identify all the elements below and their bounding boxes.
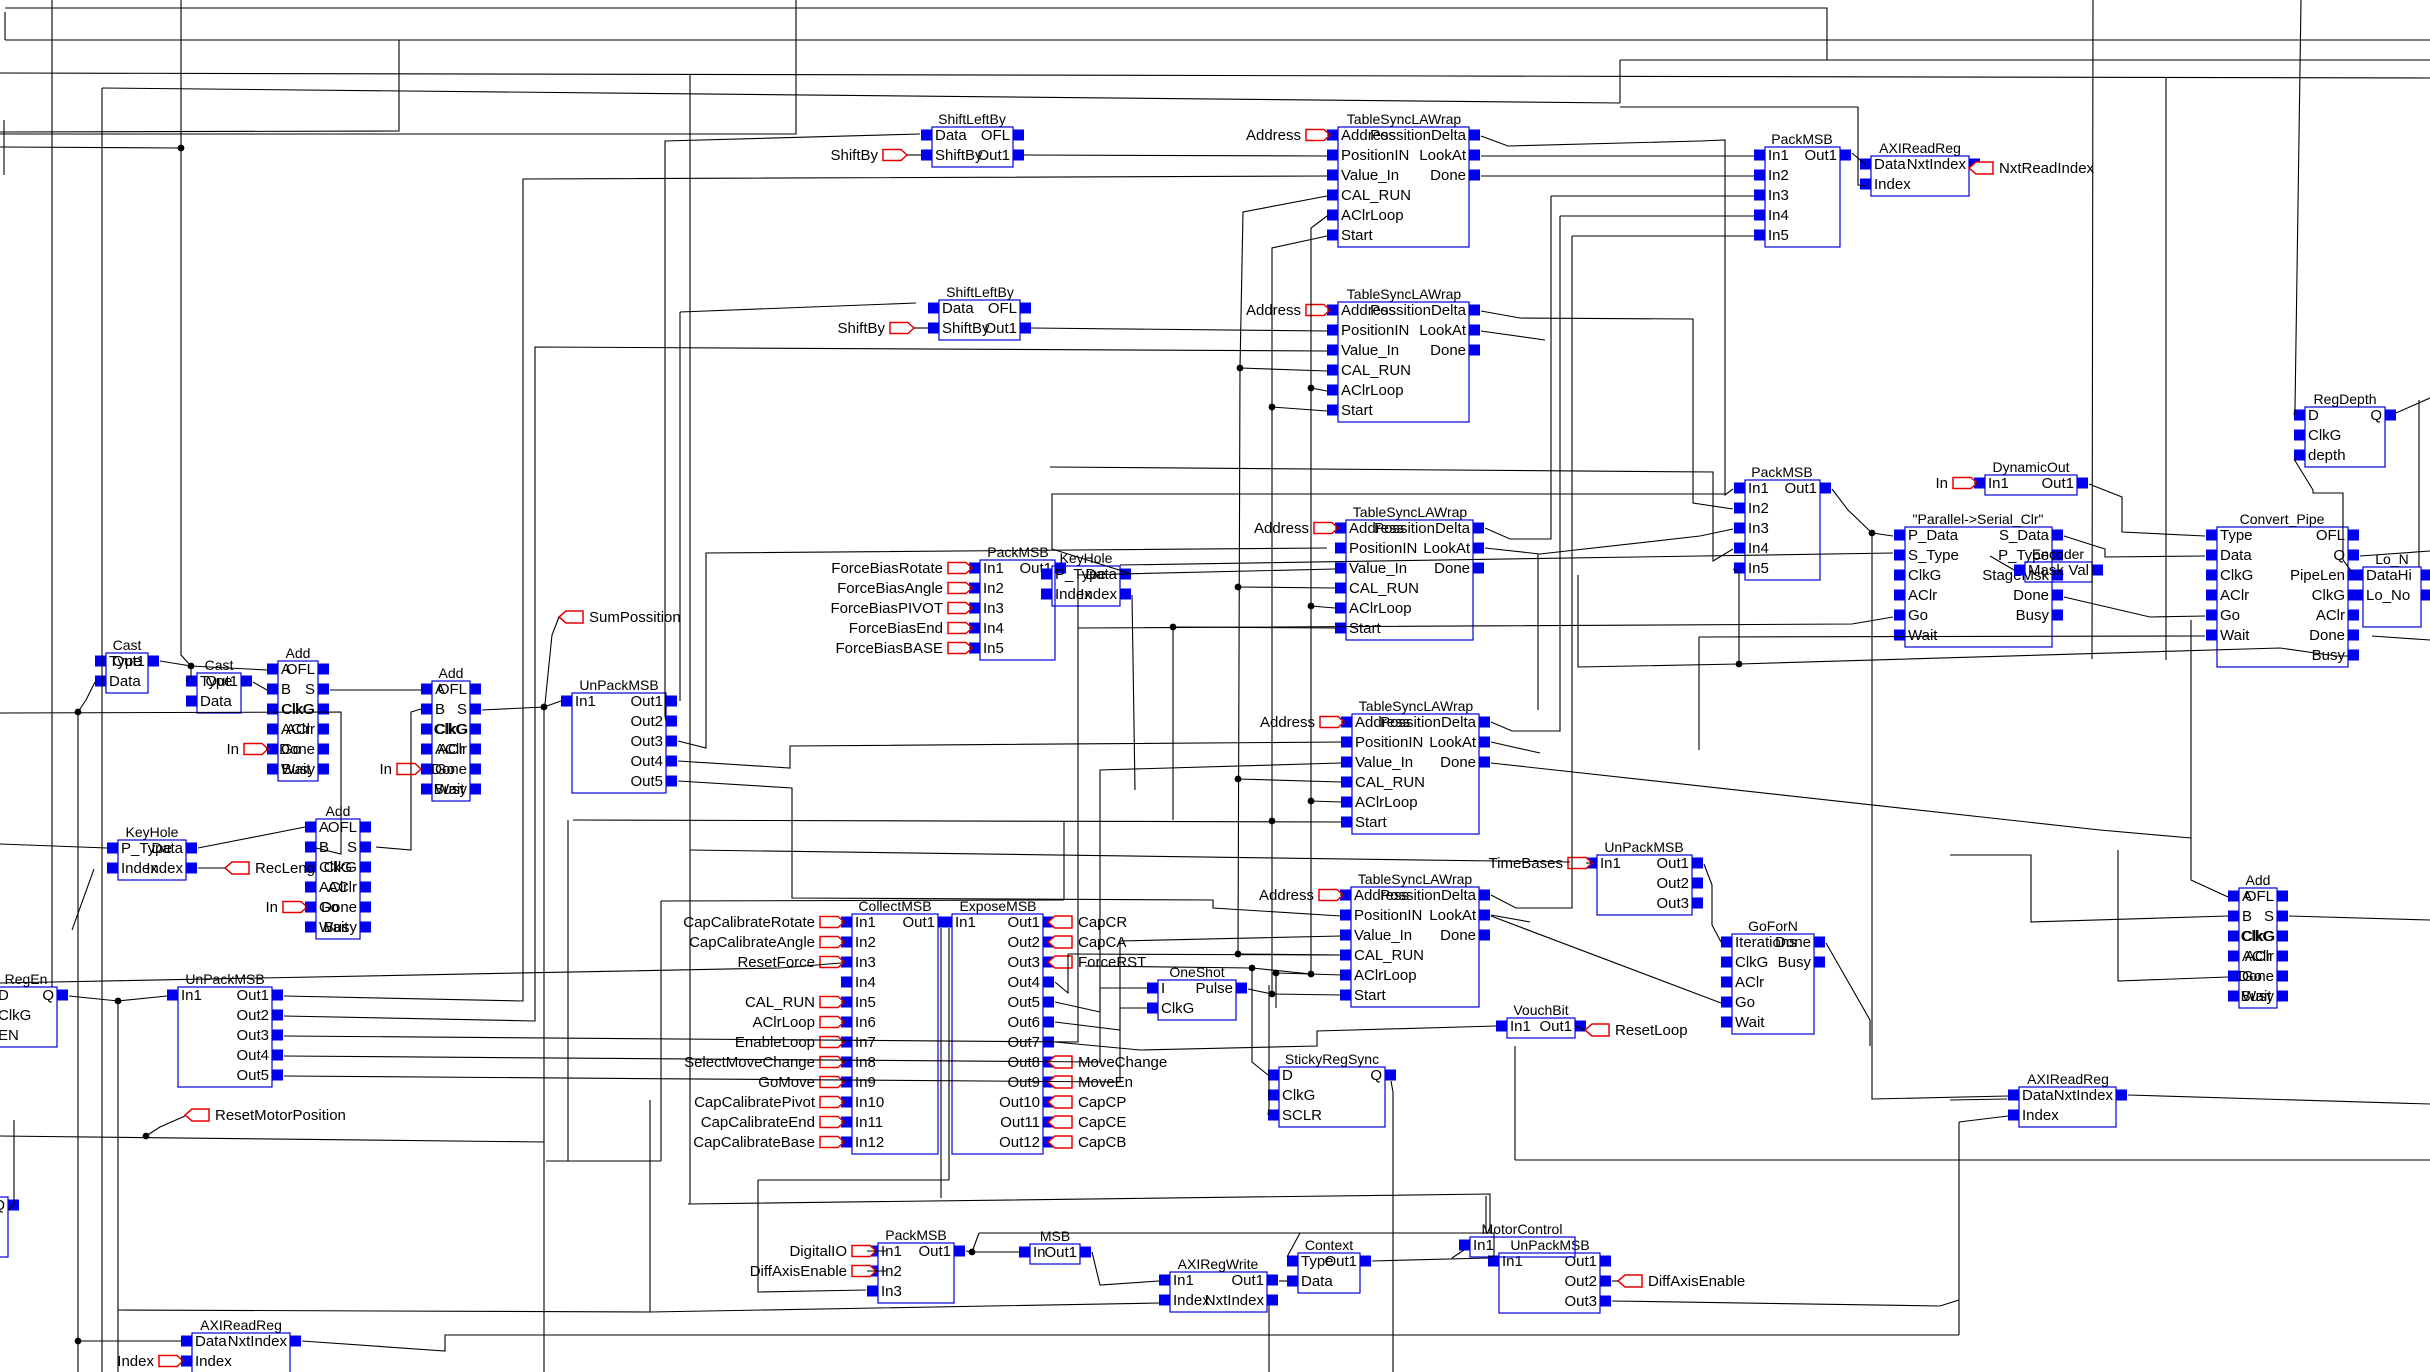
wire U2 Out1 to U4 PositionIN <box>1031 328 1327 331</box>
wire vertical x=650 <box>649 1100 651 1312</box>
svg-text:Out1: Out1 <box>984 320 1017 337</box>
wire U39 Out1 to U40 Data <box>1279 1280 1287 1282</box>
input port CAL_RUN <box>745 994 844 1011</box>
wire U17 Done to right edge <box>2372 636 2430 640</box>
svg-text:ClkG: ClkG <box>1282 1087 1315 1104</box>
junction H147/x181 <box>178 145 185 152</box>
svg-text:OFL: OFL <box>988 300 1017 317</box>
junction P_Data <box>1869 530 1876 537</box>
input port AClrLoop <box>752 1014 844 1031</box>
svg-text:CAL_RUN: CAL_RUN <box>745 994 815 1011</box>
wire vertical x=568 <box>567 820 569 1161</box>
svg-text:Out1: Out1 <box>1804 147 1837 164</box>
svg-text:OFL: OFL <box>2316 527 2345 544</box>
svg-text:In3: In3 <box>1748 520 1769 537</box>
wire U30 Out6 to U31 ClkG <box>1055 1008 1147 1030</box>
wire vertical x=1959 <box>1958 1122 1960 1335</box>
wire stub AClrLoop <box>841 1021 844 1023</box>
wire to U15 S_Type <box>1120 553 1893 565</box>
wire stub left edge 1 <box>4 12 6 40</box>
wire U23 S to U22 B <box>376 709 421 850</box>
block U42 MotorControl <box>1459 1221 1575 1257</box>
wire up to H1233 <box>972 1233 979 1252</box>
svg-text:Done: Done <box>321 899 357 916</box>
wire U41 Out2 to DiffAxisEnable <box>1612 1280 1618 1282</box>
svg-text:Done: Done <box>1430 167 1466 184</box>
svg-text:Done: Done <box>279 741 315 758</box>
wire Index stub U43 <box>181 1360 183 1362</box>
svg-text:ShiftBy: ShiftBy <box>830 147 878 164</box>
wire U14 depth to U18 DataHi <box>2294 459 2352 572</box>
svg-text:SelectMoveChange: SelectMoveChange <box>684 1054 815 1071</box>
wire U25 Index feed <box>72 869 94 930</box>
junction CAL_RUN U5 <box>1235 584 1242 591</box>
svg-text:NxtIndex: NxtIndex <box>2054 1087 2114 1104</box>
wire Start to U5 <box>1173 627 1335 628</box>
input port Address (U4) <box>1246 302 1330 319</box>
input port ForceBiasAngle <box>837 580 972 597</box>
svg-text:In: In <box>1935 475 1948 492</box>
svg-text:Index: Index <box>146 860 183 877</box>
svg-text:TableSyncLAWrap: TableSyncLAWrap <box>1347 111 1462 127</box>
wire stub ForceBias 2 <box>969 587 972 589</box>
svg-text:UnPackMSB: UnPackMSB <box>1604 839 1683 855</box>
wire U3 Done to U8 In2 <box>1481 175 1754 177</box>
input port SelectMoveChange <box>684 1054 844 1071</box>
junction Q RegEn <box>115 998 122 1005</box>
svg-text:Address: Address <box>1259 887 1314 904</box>
wire stub ResetForce <box>841 961 844 963</box>
svg-text:EnableLoop: EnableLoop <box>735 1034 815 1051</box>
svg-text:ClkG: ClkG <box>2312 587 2345 604</box>
svg-text:Busy: Busy <box>434 781 468 798</box>
output port MoveChange <box>1048 1054 1167 1071</box>
wire U4 LookAt stub <box>1481 331 1545 340</box>
svg-text:PipeLen: PipeLen <box>2290 567 2345 584</box>
input port In (Add1) <box>226 741 268 758</box>
svg-text:Address: Address <box>1246 302 1301 319</box>
svg-text:Index: Index <box>195 1353 232 1370</box>
wire to U29 In4 <box>0 963 841 983</box>
wire to U24 B <box>1950 855 2228 922</box>
wire to U24 Go <box>2118 850 2228 981</box>
block U3 TableSyncLAWrap #1 <box>1327 111 1480 247</box>
svg-text:In2: In2 <box>983 580 1004 597</box>
svg-text:CapCalibrateAngle: CapCalibrateAngle <box>689 934 815 951</box>
svg-text:LookAt: LookAt <box>1429 907 1477 924</box>
block U9 AXIReadReg #1 <box>1860 140 1980 196</box>
svg-text:Pulse: Pulse <box>1195 980 1233 997</box>
svg-text:Go: Go <box>2220 607 2240 624</box>
svg-text:MSB: MSB <box>1040 1228 1070 1244</box>
wire net H1180 <box>758 1179 949 1181</box>
svg-text:NxtIndex: NxtIndex <box>1907 156 1967 173</box>
wire net Data U1 (vertical x=665) <box>665 134 920 716</box>
wire x1959 to U36 Index <box>1959 1116 2008 1122</box>
svg-text:CapCalibrateBase: CapCalibrateBase <box>693 1134 815 1151</box>
svg-text:Out1: Out1 <box>1231 1272 1264 1289</box>
svg-text:In9: In9 <box>855 1074 876 1091</box>
wire U30 Out7 to U33 In1 <box>1055 1026 1496 1050</box>
svg-text:D: D <box>2308 407 2319 424</box>
svg-text:OFL: OFL <box>286 661 315 678</box>
wire stub CapCalibrateBase <box>841 1141 844 1143</box>
svg-text:Out1: Out1 <box>205 673 238 690</box>
wire U26 Out4 to U6 PositionIN <box>678 742 1341 768</box>
svg-text:S: S <box>347 839 357 856</box>
svg-text:Add: Add <box>439 665 464 681</box>
block U43 AXIReadReg #3 <box>181 1317 301 1372</box>
junction x1276 <box>1273 970 1280 977</box>
svg-text:AClrLoop: AClrLoop <box>1341 382 1404 399</box>
wire AClr to U6 <box>1311 801 1341 802</box>
wire to U20 Type <box>186 666 191 681</box>
svg-text:In5: In5 <box>1748 560 1769 577</box>
block U17 Convert_Pipe <box>2206 511 2359 667</box>
svg-text:AXIRegWrite: AXIRegWrite <box>1178 1256 1259 1272</box>
svg-text:Value_In: Value_In <box>1349 560 1407 577</box>
svg-text:CapCB: CapCB <box>1078 1134 1126 1151</box>
wire U33 Out1 to ResetLoop <box>1575 1026 1585 1030</box>
block U12 KeyHole #1 <box>1041 550 1131 606</box>
input port EnableLoop <box>735 1034 844 1051</box>
svg-text:AClrLoop: AClrLoop <box>1349 600 1412 617</box>
wire vertical x=78 <box>77 712 79 1372</box>
svg-text:D: D <box>0 987 9 1004</box>
wire vertical x=1515 <box>1514 1046 1516 1160</box>
svg-text:Out6: Out6 <box>1007 1014 1040 1031</box>
wire Start to U4 <box>1272 407 1327 411</box>
svg-text:AXIReadReg: AXIReadReg <box>2027 1071 2109 1087</box>
wire U26 Out2 to x665 <box>665 716 666 721</box>
output port ForceRST <box>1048 954 1146 971</box>
wire Start to U7 <box>1272 994 1341 995</box>
svg-text:Address: Address <box>1246 127 1301 144</box>
output port CapCP <box>1048 1094 1126 1111</box>
block U25 KeyHole #2 <box>107 824 197 880</box>
wire net H853 <box>690 850 1570 862</box>
wire In stub DynamicOut <box>1974 482 1977 484</box>
junction In5 U10 feed <box>1736 661 1743 668</box>
block U10 PackMSB #2 <box>1734 464 1831 580</box>
svg-text:Out1: Out1 <box>1044 1244 1077 1261</box>
block U33 VouchBit <box>1496 1002 1586 1038</box>
svg-text:In: In <box>226 741 239 758</box>
svg-text:Busy: Busy <box>324 919 358 936</box>
svg-text:In1: In1 <box>955 914 976 931</box>
svg-text:In4: In4 <box>855 974 876 991</box>
wire AClr to U7 <box>1311 974 1341 975</box>
junction Start U4 <box>1269 404 1276 411</box>
block U20 Cast #2 <box>186 657 252 713</box>
svg-text:In1: In1 <box>983 560 1004 577</box>
svg-text:AXIReadReg: AXIReadReg <box>1879 140 1961 156</box>
svg-text:CAL_RUN: CAL_RUN <box>1341 187 1411 204</box>
wire net H8 <box>5 8 1827 60</box>
junction AClr U6 <box>1308 798 1315 805</box>
output port RecLeng <box>225 860 315 877</box>
svg-text:OFL: OFL <box>2245 888 2274 905</box>
wire net to U8 In3 <box>1551 195 1754 197</box>
wire net AClrLoop vertical x=1311 <box>1311 216 1327 975</box>
svg-text:depth: depth <box>2308 447 2346 464</box>
svg-text:Out1: Out1 <box>2041 475 2074 492</box>
svg-text:In1: In1 <box>1173 1272 1194 1289</box>
svg-text:Done: Done <box>2309 627 2345 644</box>
wire to U43 Data <box>78 1340 181 1342</box>
svg-text:In1: In1 <box>575 693 596 710</box>
svg-text:AClrLoop: AClrLoop <box>1355 794 1418 811</box>
wire vertical x=680 (U26 Out1) <box>679 312 681 701</box>
svg-text:Out4: Out4 <box>236 1047 269 1064</box>
svg-text:PositionIN: PositionIN <box>1341 322 1409 339</box>
wire U27 Q to U28 In1 <box>69 996 167 1001</box>
svg-text:Out8: Out8 <box>1007 1054 1040 1071</box>
svg-text:Out2: Out2 <box>236 1007 269 1024</box>
block U34 GoForN <box>1721 918 1825 1034</box>
output port CapCA <box>1048 934 1126 951</box>
input port ResetForce <box>737 954 844 971</box>
wire DigitalIO stub <box>867 1250 886 1252</box>
wire U6 Done diagonal <box>1491 763 2191 838</box>
input port In (DynamicOut) <box>1935 475 1977 492</box>
svg-text:AClr: AClr <box>1735 974 1764 991</box>
wire net H134 with corner up x=796 <box>0 0 796 134</box>
wire U28 Out1 to U3 Value_In <box>284 176 1327 1001</box>
svg-text:Data: Data <box>1874 156 1906 173</box>
block U22 Add #2 <box>421 665 481 801</box>
svg-text:Value_In: Value_In <box>1354 927 1412 944</box>
junction Pulse net <box>1249 965 1256 972</box>
svg-text:Out1: Out1 <box>1656 855 1689 872</box>
wire U17 Q to right edge <box>2360 551 2430 556</box>
svg-text:In3: In3 <box>983 600 1004 617</box>
input port Address (U7) <box>1259 887 1343 904</box>
junction x78 U43 <box>75 1338 82 1345</box>
svg-text:PackMSB: PackMSB <box>885 1227 946 1243</box>
svg-text:Out4: Out4 <box>1007 974 1040 991</box>
wire net H900 <box>661 900 1064 901</box>
svg-text:Out1: Out1 <box>236 987 269 1004</box>
block U11 PackMSB #3 <box>969 544 1066 660</box>
wire In stub U23 <box>305 906 307 908</box>
wire to U44 Q <box>8 1120 14 1210</box>
wire U40 Out1 to U41 In1 <box>1372 1258 1488 1261</box>
wire U12 Index down <box>1132 595 1135 790</box>
wire to U25 P_Type <box>0 844 107 848</box>
block U39 AXIRegWrite <box>1159 1256 1278 1312</box>
svg-text:Value_In: Value_In <box>1341 342 1399 359</box>
svg-text:RecLeng: RecLeng <box>255 860 315 877</box>
svg-text:Out3: Out3 <box>1656 895 1689 912</box>
input port CapCalibrateAngle <box>689 934 844 951</box>
wire U42 In1 stub <box>1452 1250 1464 1258</box>
svg-text:ShiftLeftBy: ShiftLeftBy <box>938 111 1006 127</box>
wire U35 Out1 to U34 Iterations <box>1704 864 1721 942</box>
wire In stub U21 <box>266 748 268 750</box>
wire vertical x=102 <box>101 88 103 1372</box>
svg-text:Value_In: Value_In <box>1341 167 1399 184</box>
svg-text:ClkG: ClkG <box>434 721 467 738</box>
svg-text:Go: Go <box>1735 994 1755 1011</box>
wire to U21 A <box>191 666 267 670</box>
input port DiffAxisEnable <box>750 1263 876 1280</box>
wire net to U8 In5 <box>1572 235 1754 237</box>
wire U30 Out5 to U31 I <box>1055 988 1147 1012</box>
wire stub GoMove <box>841 1081 844 1083</box>
wire net H968 <box>1085 966 1311 974</box>
svg-text:CAL_RUN: CAL_RUN <box>1341 362 1411 379</box>
svg-text:ShiftLeftBy: ShiftLeftBy <box>946 284 1014 300</box>
wire vertical x=118 <box>117 1001 119 1372</box>
junction CAL_RUN U7 <box>1235 951 1242 958</box>
svg-text:ForceBiasPIVOT: ForceBiasPIVOT <box>830 600 943 617</box>
svg-text:ForceBiasRotate: ForceBiasRotate <box>831 560 943 577</box>
input port ForceBiasEnd <box>849 620 972 637</box>
svg-text:S_Type: S_Type <box>1908 547 1959 564</box>
output port ResetMotorPosition <box>185 1107 346 1124</box>
svg-text:PossitionDelta: PossitionDelta <box>1380 887 1477 904</box>
svg-text:PossitionDelta: PossitionDelta <box>1380 714 1477 731</box>
wire U41 Out3 right <box>1612 1300 1959 1306</box>
svg-text:In5: In5 <box>855 994 876 1011</box>
wire U7 Done to U34 Go <box>1491 916 1721 1003</box>
wire CAL_RUN to U7 <box>1238 954 1341 955</box>
wire Address stub U4 <box>1327 309 1330 311</box>
output port MoveEn <box>1048 1074 1133 1091</box>
wire net H74 (second horizontal bus) <box>0 73 2430 78</box>
wire x=1872 down to U36 Data <box>1872 533 2008 1099</box>
svg-text:Address: Address <box>1254 520 1309 537</box>
svg-text:Start: Start <box>1341 227 1374 244</box>
svg-text:CapCalibrateRotate: CapCalibrateRotate <box>683 914 815 931</box>
svg-text:NxtReadIndex: NxtReadIndex <box>1999 160 2095 177</box>
block U14 RegDepth <box>2294 391 2396 467</box>
svg-text:LookAt: LookAt <box>1419 322 1467 339</box>
svg-text:Index: Index <box>1874 176 1911 193</box>
input port Address (U6) <box>1260 714 1344 731</box>
wire net H820 to U6 Start <box>573 820 1341 822</box>
svg-text:Done: Done <box>1430 342 1466 359</box>
wire U6 LookAt stub <box>1491 742 1540 753</box>
svg-text:Wait: Wait <box>1735 1014 1765 1031</box>
svg-text:Out10: Out10 <box>999 1094 1040 1111</box>
svg-text:Cast: Cast <box>205 657 234 673</box>
junction CAL_RUN U6 <box>1235 776 1242 783</box>
svg-text:SCLR: SCLR <box>1282 1107 1322 1124</box>
svg-text:TimeBases: TimeBases <box>1489 855 1563 872</box>
svg-text:AClr: AClr <box>2220 587 2249 604</box>
svg-text:In5: In5 <box>983 640 1004 657</box>
svg-text:Add: Add <box>286 645 311 661</box>
svg-text:In: In <box>379 761 392 778</box>
svg-text:PackMSB: PackMSB <box>987 544 1048 560</box>
svg-text:OFL: OFL <box>981 127 1010 144</box>
svg-text:ShiftBy: ShiftBy <box>935 147 983 164</box>
svg-text:In: In <box>265 899 278 916</box>
svg-text:ClkG: ClkG <box>1161 1000 1194 1017</box>
block U41 UnPackMSB #4 <box>1488 1237 1611 1313</box>
block U37 PackMSB #4 <box>867 1227 965 1303</box>
wire U28 Out3 to U5 Value_In <box>284 569 1335 1042</box>
wire U6 PossitionDelta up x=1560 <box>1491 216 1560 731</box>
svg-text:UnPackMSB: UnPackMSB <box>1510 1237 1589 1253</box>
wire U29 Out1 down <box>940 928 942 1198</box>
wire net H1161 <box>546 1160 661 1162</box>
wire into U36 Data (left segment) <box>1950 1099 2007 1100</box>
wire U24 S to right edge <box>2289 916 2430 920</box>
input port Address (U5) <box>1254 520 1338 537</box>
wire DiffAxisEnable stub <box>867 1270 886 1272</box>
wire U37 Out1 <box>966 1251 972 1252</box>
svg-text:EN: EN <box>0 1027 19 1044</box>
svg-text:MoveChange: MoveChange <box>1078 1054 1167 1071</box>
svg-text:Out4: Out4 <box>630 753 663 770</box>
svg-text:Add: Add <box>2246 872 2271 888</box>
svg-text:In4: In4 <box>983 620 1004 637</box>
svg-text:MoveEn: MoveEn <box>1078 1074 1133 1091</box>
svg-text:In6: In6 <box>855 1014 876 1031</box>
svg-text:ShiftBy: ShiftBy <box>942 320 990 337</box>
input port In (Add3) <box>265 899 307 916</box>
svg-text:Data: Data <box>942 300 974 317</box>
wire AClr to U5 <box>1311 606 1335 608</box>
block U21 Add #1 <box>267 645 329 781</box>
svg-text:Out2: Out2 <box>1007 934 1040 951</box>
svg-text:CapCalibrateEnd: CapCalibrateEnd <box>701 1114 815 1131</box>
svg-text:SumPossition: SumPossition <box>589 609 681 626</box>
svg-text:Out5: Out5 <box>236 1067 269 1084</box>
wire stub ForceBias 5 <box>969 647 972 649</box>
block U24 Add #4 <box>2228 872 2288 1008</box>
svg-text:CapCP: CapCP <box>1078 1094 1126 1111</box>
wire CAL_RUN to U5 <box>1238 587 1335 588</box>
wire U7 LookAt stub <box>1491 915 1530 922</box>
svg-text:Address: Address <box>1260 714 1315 731</box>
block U35 UnPackMSB #3 <box>1586 839 1703 915</box>
svg-text:Done: Done <box>2238 968 2274 985</box>
wire U13 Out1 to U17 Type <box>2089 484 2205 536</box>
wire stub CapCalibrateEnd <box>841 1121 844 1123</box>
wire net H1233 to U41 In1 <box>979 1233 1494 1257</box>
wire U8 Out1 to U9 Data <box>1852 153 1866 165</box>
svg-text:Out1: Out1 <box>1324 1253 1357 1270</box>
block U5 TableSyncLAWrap #3 <box>1335 504 1484 640</box>
wire vertical x=2092 <box>2092 0 2093 659</box>
wire to U32 SCLR <box>1268 985 1269 1115</box>
wire U5 LookAt to U10 In3 <box>1485 529 1733 554</box>
svg-text:Out5: Out5 <box>1007 994 1040 1011</box>
svg-text:S: S <box>305 681 315 698</box>
svg-text:Out2: Out2 <box>1564 1273 1597 1290</box>
input port ForceBiasPIVOT <box>830 600 972 617</box>
svg-text:Out3: Out3 <box>236 1027 269 1044</box>
block U27 RegEn (partial) <box>0 971 68 1047</box>
block U29 CollectMSB <box>841 898 949 1154</box>
svg-text:StickyRegSync: StickyRegSync <box>1285 1051 1379 1067</box>
svg-text:AClr: AClr <box>328 879 357 896</box>
svg-text:Start: Start <box>1355 814 1388 831</box>
input port CapCalibratePivot <box>694 1094 844 1111</box>
wire U34 Done out <box>1826 943 1870 1046</box>
wire U5 PossitionDelta up x=1551 <box>1485 196 1551 539</box>
wire net CAL_RUN vertical x=1240 <box>1238 196 1327 954</box>
svg-text:In11: In11 <box>855 1114 883 1131</box>
wire U38 Out1 to U39 In1 <box>1092 1252 1159 1285</box>
svg-text:In5: In5 <box>1768 227 1789 244</box>
wire vertical x=2295 to U14 D <box>2294 0 2301 415</box>
wire U15 S_Data to U17 Data <box>2064 536 2205 557</box>
